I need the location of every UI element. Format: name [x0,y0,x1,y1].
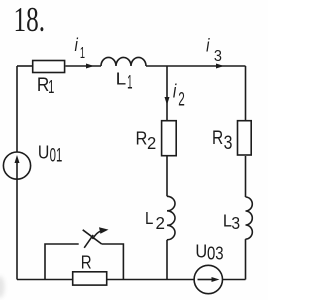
svg-text:03: 03 [207,243,224,264]
wire L3 to bottom-right corner [245,239,247,279]
svg-text:R: R [81,252,92,273]
voltage source U01 [3,141,62,179]
wire switch branch right riser [102,244,124,280]
wire U03 to bottom-right corner [223,279,246,281]
inductor L3 [223,197,252,239]
svg-text:18.: 18. [14,0,46,39]
wire R3 to L3 [245,156,247,197]
svg-text:2: 2 [178,90,185,110]
svg-text:1: 1 [80,44,85,62]
resistor R2 [136,121,177,156]
wire L2 to bottom rail [166,240,168,280]
wire right rail top [245,66,247,120]
inductor L1 [101,57,146,93]
wire R to U03 [107,279,195,281]
voltage source U03 [194,240,223,293]
svg-text:3: 3 [224,132,233,154]
svg-text:R: R [212,126,223,148]
svg-text:L: L [145,209,153,228]
svg-text:1: 1 [127,72,132,94]
switch blade [83,230,102,244]
svg-text:R: R [136,128,148,149]
svg-text:2: 2 [155,213,164,233]
wire switch branch left riser [45,244,79,280]
svg-text:01: 01 [50,146,63,167]
wire top-left [17,65,32,67]
svg-text:3: 3 [214,48,222,66]
svg-text:L: L [116,68,127,88]
current arrow i1 [66,35,102,69]
svg-text:2: 2 [147,133,156,154]
resistor R3 [212,121,251,155]
wire R2 to L2 [166,157,168,197]
wire bottom-left to R [17,279,73,281]
resistor R [73,252,107,285]
switch cross stroke [84,235,93,248]
switch actuation arrow [93,227,109,239]
svg-text:i: i [206,35,210,56]
svg-text:U: U [38,141,49,163]
resistor R1 [33,61,65,98]
svg-text:i: i [75,35,79,56]
inductor L2 [145,196,175,240]
svg-text:U: U [195,240,207,261]
wire left rail top [16,66,18,152]
scan smudge bottom-left [0,276,5,298]
current arrow i2 on middle branch [165,66,185,120]
svg-text:3: 3 [231,214,240,233]
svg-text:1: 1 [48,77,54,98]
current arrow i3 on top wire [146,35,246,69]
wire left rail bottom [16,179,18,280]
label 18 [14,0,46,39]
svg-text:i: i [173,80,177,102]
svg-text:R: R [37,73,49,95]
